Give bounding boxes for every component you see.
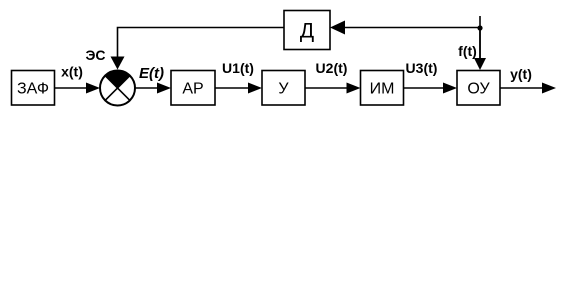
svg-text:U3(t): U3(t): [406, 60, 438, 76]
svg-text:E(t): E(t): [139, 65, 164, 82]
svg-text:U1(t): U1(t): [222, 60, 254, 76]
svg-text:ОУ: ОУ: [467, 81, 490, 98]
svg-text:ИМ: ИМ: [370, 81, 395, 98]
svg-text:x(t): x(t): [61, 64, 83, 80]
svg-text:Д: Д: [300, 20, 314, 43]
svg-text:y(t): y(t): [510, 66, 532, 82]
svg-text:U2(t): U2(t): [316, 60, 348, 76]
svg-text:ЗАФ: ЗАФ: [17, 81, 49, 98]
svg-text:ЭС: ЭС: [85, 47, 105, 63]
svg-text:У: У: [278, 81, 289, 98]
svg-text:АР: АР: [182, 81, 203, 98]
svg-text:f(t): f(t): [458, 43, 477, 59]
